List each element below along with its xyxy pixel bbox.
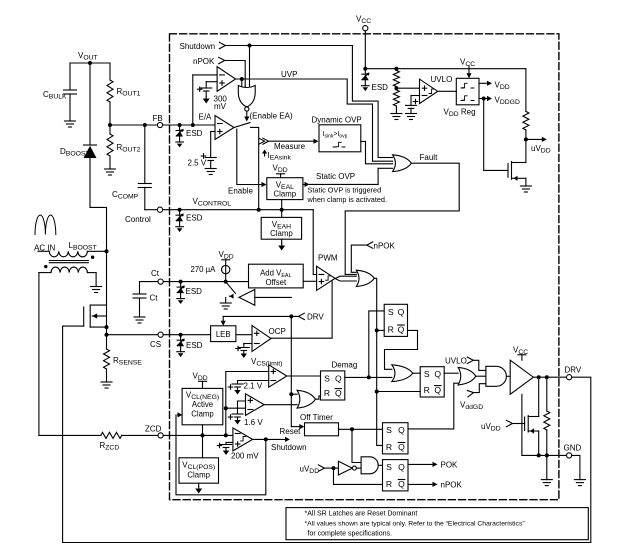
wire VDDGD output (479, 96, 520, 107)
svg-text:Q: Q (335, 388, 342, 398)
comparator 1.6 V (demag) (246, 394, 265, 416)
svg-text:for complete specifications.: for complete specifications. (308, 531, 392, 538)
svg-text:Active: Active (192, 400, 213, 409)
pin CS (150, 332, 163, 349)
svg-text:Shutdown: Shutdown (271, 443, 307, 452)
pin DRV (565, 366, 582, 380)
latch Demag SR (321, 361, 358, 401)
capacitor CBULK (43, 63, 77, 121)
svg-text:Demag: Demag (332, 361, 358, 370)
svg-text:Q: Q (434, 369, 441, 379)
svg-text:DRV: DRV (565, 366, 582, 375)
battery 300 mV (198, 82, 228, 111)
svg-text:Reset: Reset (280, 427, 302, 436)
pin VCC top (356, 15, 371, 69)
rail VDD above VCL(NEG) clamp (193, 372, 208, 389)
svg-text:Static OVP: Static OVP (316, 172, 355, 181)
svg-text:UVLO: UVLO (445, 357, 467, 366)
svg-text:Ct: Ct (151, 269, 160, 278)
ground below divider (391, 114, 402, 120)
svg-text:R: R (424, 385, 430, 395)
signal uVDD into POK logic (300, 465, 383, 485)
svg-text:200 mV: 200 mV (231, 452, 259, 461)
svg-text:*All values shown are typical: *All values shown are typical only. Refe… (305, 521, 526, 528)
capacitor Ct (133, 282, 158, 317)
wire OCP output to PWM node (271, 281, 332, 338)
current source 270 uA (191, 265, 230, 282)
comparator 2.1 V (in-rush) (269, 365, 287, 387)
wire CS net internal (163, 333, 252, 337)
inverter uVDD (338, 461, 361, 475)
svg-text:GND: GND (564, 444, 582, 453)
svg-text:nPOK: nPOK (374, 242, 396, 251)
wire VCL clamps to ZCD (202, 425, 204, 458)
svg-text:S: S (388, 307, 394, 317)
comparator UVP (300mV) (193, 67, 236, 125)
svg-text:ESD: ESD (186, 341, 203, 350)
block Off Timer (280, 413, 339, 436)
comparator OCP (252, 326, 286, 352)
wire UVLO comparator output (438, 90, 457, 92)
resistor DRV pulldown (544, 377, 550, 455)
battery 2.1 V (228, 381, 263, 395)
battery 1.6 V (228, 414, 263, 427)
svg-text:POK: POK (441, 461, 459, 470)
latch UVLO SR (420, 367, 444, 397)
block Add VEAL Offset (249, 264, 317, 288)
ground below Ct (134, 317, 145, 323)
ground below ROUT2 (105, 169, 116, 175)
svg-text:S: S (386, 462, 392, 472)
wire UVP to Fault OR (347, 79, 372, 161)
svg-text:*All SR Latches are Reset Domi: *All SR Latches are Reset Dominant (305, 511, 418, 518)
signal nPOK into PWM OR (351, 242, 395, 273)
svg-text:Offset: Offset (265, 278, 286, 287)
wire DRV output net (533, 375, 566, 379)
signal VddGD gating (460, 384, 486, 411)
switch Ct discharge (226, 283, 236, 303)
svg-text:R: R (386, 479, 392, 489)
svg-text:Clamp: Clamp (187, 471, 210, 480)
pin ZCD (145, 425, 163, 439)
and-gate POK set (352, 429, 383, 474)
buffer output driver (510, 360, 533, 394)
svg-text:DRV: DRV (307, 313, 324, 322)
switch at E/A output (234, 123, 259, 210)
op-amp E/A (199, 113, 235, 140)
svg-text:when clamp is activated.: when clamp is activated. (307, 195, 388, 204)
pin GND (564, 444, 582, 459)
signal DRV feedback (223, 313, 324, 322)
node uVDD (524, 137, 551, 155)
ground below CBULK (65, 121, 76, 127)
diode DBOOST (60, 63, 97, 207)
resistor ROUT2 (107, 125, 141, 169)
wire GND net internal (522, 394, 567, 479)
node VOUT (70, 51, 110, 65)
wire gate-drive loop from DRV (63, 326, 591, 542)
rail VDD above VEAL clamp (273, 164, 288, 178)
comparator 200 mV (ZCD/shutdown) (233, 428, 253, 451)
note box (286, 508, 588, 540)
capacitor CCOMP (112, 125, 151, 210)
signal Shutdown (top) (180, 42, 353, 51)
block Dynamic OVP (312, 116, 362, 152)
wire PWM OR output (vertical B) (374, 278, 420, 445)
signal nPOK output (408, 481, 463, 490)
svg-text:Q: Q (398, 307, 405, 317)
svg-text:Static OVP is triggered: Static OVP is triggered (308, 186, 382, 195)
ground below Ct switch (220, 303, 231, 309)
svg-text:PWM: PWM (318, 254, 338, 263)
svg-text:270 µA: 270 µA (191, 265, 217, 274)
wire DRV down to Demag-reset OR and Off Timer (289, 316, 304, 429)
svg-text:S: S (324, 373, 330, 383)
latch POK SR (383, 460, 409, 491)
svg-text:Shutdown: Shutdown (180, 42, 216, 51)
NOR gate Enable-EA (238, 46, 255, 112)
svg-text:Q: Q (398, 325, 405, 335)
svg-text:Fault: Fault (420, 153, 439, 162)
block VEAH Clamp (261, 200, 301, 251)
svg-text:Off Timer: Off Timer (300, 413, 333, 422)
battery VCS(limit) (236, 344, 283, 368)
or-gate Demag/PWM combine (392, 365, 420, 382)
wire ZCD net internal (163, 433, 233, 437)
wire VDD output arrow (479, 81, 510, 92)
wire Off Timer output (339, 427, 383, 431)
or-gate Fault (373, 153, 439, 172)
wire Dynamic OVP output to Fault OR (361, 141, 393, 163)
pin FB (153, 114, 163, 128)
wire Fault to PWM OR gate (345, 163, 459, 274)
ground below RSENSE (101, 382, 112, 388)
svg-text:CS: CS (150, 340, 161, 349)
wire PWM latch Qbar wrap to OR (385, 330, 418, 369)
signal POK output (408, 461, 458, 470)
wire VCC bus right drop (525, 69, 527, 112)
svg-text:R: R (386, 442, 392, 452)
resistor uVDD pull-up (523, 111, 529, 139)
ground below uVDD switch (520, 186, 531, 192)
pin Ct (151, 269, 163, 284)
svg-text:Q: Q (434, 385, 441, 395)
ESD diode at VCC (362, 69, 389, 92)
ESD diode at Ct (177, 282, 202, 304)
rail VCC above driver (513, 346, 528, 361)
comparator PWM (317, 254, 338, 291)
svg-text:ESD: ESD (186, 214, 203, 223)
block LEB (211, 326, 236, 342)
svg-text:(Enable EA): (Enable EA) (250, 112, 293, 121)
wire GND pin to ground (572, 455, 580, 479)
svg-text:E/A: E/A (199, 113, 213, 122)
ESD diode at FB (176, 125, 203, 147)
or-gate Demag reset (264, 390, 321, 408)
battery 2.5 V reference (188, 132, 217, 169)
svg-text:Ct: Ct (150, 294, 159, 303)
battery 200 mV (217, 442, 259, 460)
wire Off-Timer latch Q to UVLO OR (408, 383, 458, 429)
svg-text:ESD: ESD (186, 129, 203, 138)
svg-text:Dynamic OVP: Dynamic OVP (312, 116, 362, 125)
svg-text:ESD: ESD (372, 83, 389, 92)
wire Shutdown to Fault OR (352, 46, 378, 158)
or-gate UVLO latch combine (444, 367, 486, 385)
AC source symbol (34, 215, 56, 252)
svg-text:Clamp: Clamp (270, 229, 293, 238)
svg-text:Q: Q (398, 425, 405, 435)
ground below secondary (91, 287, 102, 293)
svg-text:S: S (386, 425, 392, 435)
inductor LBOOST (transformer primary) (38, 241, 107, 259)
svg-text:Q: Q (398, 442, 405, 452)
svg-text:Measure: Measure (274, 142, 306, 151)
svg-text:nPOK: nPOK (193, 57, 215, 66)
resistor divider UVLO upper (393, 71, 399, 87)
block VCL(NEG) Active Clamp (182, 388, 223, 424)
wire Demag Q net (345, 375, 392, 379)
svg-text:Enable: Enable (228, 187, 253, 196)
wire Enable to VEAL clamp (228, 129, 267, 196)
buffer Ct switch driver (239, 290, 291, 306)
svg-text:R: R (388, 325, 394, 335)
transformer secondary (ZCD winding) (39, 265, 96, 436)
latch Off-Timer SR (383, 423, 409, 454)
resistor RSENSE (104, 327, 143, 382)
wire VCC into VDD Reg (460, 58, 475, 79)
wire PWM output pair (335, 276, 356, 281)
signal UVLO gating (445, 357, 486, 371)
svg-text:UVP: UVP (281, 70, 297, 79)
svg-text:R: R (324, 388, 330, 398)
wire 1.6V comparator inputs (226, 401, 246, 414)
wire VCC bus (363, 67, 526, 71)
wire FB net (108, 123, 215, 127)
ground below driver (541, 480, 552, 486)
wire CS net external (107, 334, 158, 336)
resistor divider UVLO lower (393, 90, 399, 114)
svg-text:Q: Q (335, 373, 342, 383)
svg-text:FB: FB (153, 114, 163, 123)
latch PWM SR (384, 304, 407, 336)
wire DRV to LEB (221, 316, 226, 325)
wire shutdown to active clamp enable (176, 412, 266, 495)
wire Control net (145, 208, 313, 212)
resistor RZCD (39, 432, 158, 451)
pin Control (125, 207, 163, 224)
svg-text:OCP: OCP (269, 327, 286, 336)
ground below 2.5V (205, 169, 216, 175)
signal uVDD to driver pulldown gate (481, 420, 525, 432)
power MOSFET Q1 (63, 305, 109, 337)
transformer core (49, 261, 88, 263)
svg-text:Q: Q (398, 462, 405, 472)
wire vertical A to PWM latch S (369, 311, 384, 378)
label VCONTROL (193, 197, 232, 208)
block VEAL Clamp (267, 178, 303, 200)
regulator block VDD Reg (444, 78, 480, 118)
wire Shutdown output (253, 437, 307, 452)
block VCL(POS) Clamp (179, 458, 219, 494)
wire 2.1V comp to Demag S (287, 375, 321, 377)
svg-text:1.6 V: 1.6 V (244, 418, 263, 427)
svg-text:mV: mV (214, 102, 227, 111)
wire DBOOST anode to MOSFET drain (90, 207, 109, 305)
transistor uVDD switch (484, 99, 526, 187)
wire VCONTROL to PWM input (313, 210, 316, 275)
comparator UVLO (420, 75, 453, 104)
svg-text:ESD: ESD (186, 287, 203, 296)
wire UVP net (236, 70, 348, 81)
wire Static OVP (303, 168, 378, 187)
ground at GND pin (574, 480, 585, 486)
signal nPOK (top) (193, 57, 245, 87)
wire Ct net (140, 280, 249, 284)
transistor driver pulldown (525, 377, 539, 455)
node UVLO divider tap (394, 86, 419, 90)
svg-text:LEB: LEB (216, 330, 231, 339)
signal Measure IEAsink (259, 138, 319, 161)
svg-text:2.5 V: 2.5 V (188, 159, 207, 168)
resistor ROUT1 (107, 63, 141, 125)
ground below UVLO reference (406, 114, 417, 120)
svg-text:Clamp: Clamp (274, 190, 297, 199)
svg-text:Control: Control (125, 215, 151, 224)
ESD diode at Control (176, 210, 203, 232)
IC boundary (dashed) (170, 34, 559, 500)
battery UVLO reference (406, 96, 420, 114)
note Static OVP text (307, 186, 388, 205)
ESD diode at CS (177, 335, 203, 357)
rail VDD above current source (219, 250, 234, 265)
svg-text:Clamp: Clamp (191, 410, 214, 419)
wire 2.1V comparator inputs (224, 372, 269, 436)
svg-text:nPOK: nPOK (441, 481, 463, 490)
svg-text:UVLO: UVLO (431, 75, 453, 84)
svg-text:2.1 V: 2.1 V (244, 382, 263, 391)
wire Enable-EA arrow to switch (244, 111, 293, 121)
or-gate PWM-fault (345, 270, 374, 286)
svg-text:S: S (424, 369, 430, 379)
and-gate driver enable (486, 366, 510, 386)
svg-text:ZCD: ZCD (145, 425, 162, 434)
svg-text:Q: Q (398, 479, 405, 489)
